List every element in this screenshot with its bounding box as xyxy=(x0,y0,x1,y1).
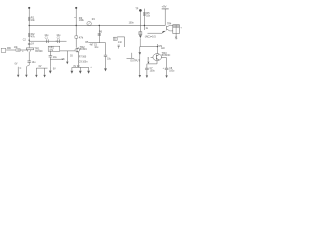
wire: rail4 x=144.4 xyxy=(143,9,145,30)
node: junction bus A / rail2 xyxy=(76,25,77,26)
resistor R9 box xyxy=(113,37,117,40)
node A: rail 1 top terminal xyxy=(28,7,30,9)
svg-text:100n: 100n xyxy=(129,22,135,24)
resistor R2 xyxy=(28,33,30,36)
wire: rail3 x=99.3 xyxy=(98,25,100,42)
resistor R8 xyxy=(98,33,101,35)
transistor TR1 xyxy=(26,48,33,50)
node: junction bus A / rail1 xyxy=(29,25,30,26)
wire: y=42.6 horizontal xyxy=(89,42,106,44)
ground stub x=67.3 xyxy=(66,51,68,62)
svg-text:10u: 10u xyxy=(44,34,49,37)
wire: TR3 emitter down xyxy=(156,61,158,64)
wire: mic input y=50 xyxy=(1,48,6,52)
wire: TR2 collector xyxy=(75,38,77,47)
wire: earpiece bottom xyxy=(175,34,177,40)
wire: y=59.2 stub xyxy=(50,58,63,60)
svg-text:0V: 0V xyxy=(39,66,42,68)
svg-text:100u: 100u xyxy=(169,70,175,72)
labels (tiny text) xyxy=(7,5,182,73)
svg-text:100k: 100k xyxy=(79,20,85,22)
svg-text:0V 0V: 0V 0V xyxy=(73,66,80,68)
wire: rail4b x=140.4 xyxy=(139,10,141,31)
svg-text:BC549: BC549 xyxy=(80,49,88,51)
svg-text:MIC: MIC xyxy=(7,48,12,50)
svg-text:BC549: BC549 xyxy=(35,51,43,53)
svg-text:47k: 47k xyxy=(79,35,84,39)
wire: TR1 emitter down xyxy=(28,52,30,61)
svg-text:BC549C: BC549C xyxy=(162,55,171,57)
wire: TR2 emitter down xyxy=(77,53,79,68)
wire: TR3 base left xyxy=(151,56,153,58)
svg-text:R2: R2 xyxy=(31,32,35,36)
wire: TR3 out right xyxy=(161,57,166,59)
svg-text:R6: R6 xyxy=(99,29,103,33)
svg-text:TR2: TR2 xyxy=(80,45,86,49)
wire: jack vertical xyxy=(131,53,133,59)
capacitor C4s on rail1 xyxy=(28,44,31,45)
capacitor small under box xyxy=(118,45,120,46)
svg-text:R3: R3 xyxy=(79,16,83,20)
resistor R4 tick xyxy=(74,17,76,19)
node: junction bus B / rail1 xyxy=(29,40,30,41)
capacitor C2 (series on bus B) xyxy=(58,39,60,43)
ground pair 2 with bar xyxy=(36,67,47,69)
wire: output stub xyxy=(127,57,135,59)
svg-text:TP: TP xyxy=(135,9,138,11)
svg-text:R1: R1 xyxy=(31,16,35,20)
transistor TR4 (output, right) xyxy=(166,26,168,30)
capacitor C7 (bottom left stack) xyxy=(146,64,148,68)
svg-text:(NC)=0.5: (NC)=0.5 xyxy=(145,34,156,38)
resistor R3 (series, input) xyxy=(16,49,20,51)
node: junction bus A / rail4 xyxy=(144,25,145,26)
resistor R1 xyxy=(28,17,30,20)
svg-text:R7 560: R7 560 xyxy=(79,56,87,58)
earpiece LS1 xyxy=(173,25,180,34)
wire: +9V bus horizontal y=25.2 xyxy=(29,25,165,27)
wire: rail2 vertical x=76.2 xyxy=(75,8,77,36)
transistor TR2 xyxy=(75,48,80,52)
capacitor C4 column x=50.4 xyxy=(49,51,51,55)
resistor R11 xyxy=(148,58,149,61)
svg-text:R5: R5 xyxy=(146,11,150,15)
resistor R6 (collector load) xyxy=(75,36,78,39)
ground pair left xyxy=(17,67,19,75)
svg-text:0V: 0V xyxy=(15,64,18,66)
svg-text:100u: 100u xyxy=(150,70,156,72)
capacitor C1 (series on bus B) xyxy=(47,39,49,43)
capacitor C5 column xyxy=(105,43,107,56)
capacitor C8 (bottom right stack) xyxy=(165,68,169,69)
svg-text:0V: 0V xyxy=(53,68,56,70)
wire: from R9 to corner xyxy=(117,36,124,38)
power +9V bar xyxy=(162,8,169,10)
svg-text:TR4: TR4 xyxy=(167,23,172,25)
capacitor C6 (small, polarized) xyxy=(139,32,142,35)
wire: rail1 vertical x=29.2 xyxy=(28,8,30,48)
transistor TR3 xyxy=(153,54,162,61)
ground stub x=50.3 xyxy=(49,67,51,71)
wire: signal bus y=41.2 xyxy=(29,40,66,42)
ground trio with bar xyxy=(72,66,89,68)
node: rail2 top terminal xyxy=(75,7,77,9)
svg-text:10u: 10u xyxy=(56,34,61,37)
wire: long ground x=139.8 xyxy=(139,47,141,75)
wire: stage2 base wire y=50.9 xyxy=(60,50,75,52)
wire: supply vertical x=165.2 xyxy=(164,9,166,26)
wire: base with arrow xyxy=(148,32,163,34)
wire: TR3 collector feed y=46.6 xyxy=(140,46,158,48)
resistor R5 (series in bus) xyxy=(87,21,91,25)
node: dot top of rail 4b xyxy=(139,9,142,12)
preset box VR1 xyxy=(48,46,60,51)
svg-text:C9 100n: C9 100n xyxy=(79,62,88,64)
capacitor C3 (emitter bypass) xyxy=(28,61,31,62)
svg-text:TR1: TR1 xyxy=(34,47,40,51)
resistor R10 xyxy=(143,12,146,15)
svg-text:+9V: +9V xyxy=(162,5,167,9)
svg-text:OUTPUT: OUTPUT xyxy=(130,61,140,63)
